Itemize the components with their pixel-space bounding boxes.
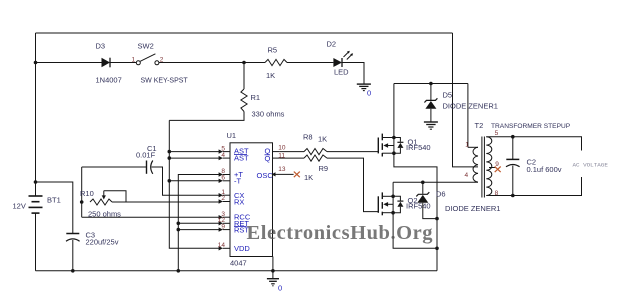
svg-text:BT1: BT1 bbox=[47, 196, 61, 205]
wire Q2 drain to transformer pin4 row bbox=[393, 182, 478, 196]
potentiometer R10 250 ohms bbox=[80, 189, 126, 219]
junction VDD rail / pin4 row bbox=[168, 156, 172, 160]
wire pin4 row bbox=[169, 157, 219, 159]
U1 left pin stubs bbox=[223, 152, 230, 249]
svg-text:U1: U1 bbox=[227, 131, 237, 140]
transistor Q2 IRF540 bbox=[378, 192, 430, 215]
svg-text:R9: R9 bbox=[319, 164, 329, 173]
IC U1 4047 body bbox=[227, 131, 273, 268]
wire secondary bottom row bbox=[486, 177, 581, 196]
svg-text:D2: D2 bbox=[327, 40, 337, 49]
svg-text:D5: D5 bbox=[443, 91, 453, 100]
svg-text:DIODE ZENER1: DIODE ZENER1 bbox=[445, 204, 500, 213]
wire transformer pin1 drop bbox=[467, 84, 469, 148]
svg-text:10: 10 bbox=[278, 144, 286, 151]
svg-text:-T: -T bbox=[234, 177, 241, 186]
U1 left pin input arrows bbox=[219, 149, 223, 250]
U1 pin 10 stub bbox=[273, 151, 280, 153]
transformer T2 secondary winding bbox=[486, 130, 499, 197]
svg-text:DIODE ZENER1: DIODE ZENER1 bbox=[443, 102, 498, 111]
wire C1 row to pin1 bbox=[82, 166, 146, 168]
wire top rail from battery+ to transformer center tap drop bbox=[36, 32, 453, 34]
U1 pin 13 OSC stub bbox=[273, 173, 294, 175]
transformer T2 primary winding bbox=[465, 141, 479, 182]
diode zener D6 bbox=[416, 182, 500, 218]
wire left rail lower (battery -) bbox=[35, 214, 37, 271]
node junction D6 tap bbox=[421, 181, 425, 185]
junction gnd rail / bottom rail bbox=[177, 269, 181, 273]
junction battery+ rail / switched row bbox=[34, 61, 38, 65]
svg-text:SW2: SW2 bbox=[138, 42, 154, 51]
diode D3 bbox=[96, 42, 122, 85]
wire Q2 source to rail bbox=[393, 213, 437, 249]
svg-text:R8: R8 bbox=[303, 133, 313, 142]
svg-text:5: 5 bbox=[495, 130, 499, 137]
switch SW2 SW KEY-SPST bbox=[132, 42, 189, 85]
svg-text:R10: R10 bbox=[80, 189, 94, 198]
svg-text:1K: 1K bbox=[304, 173, 313, 182]
svg-text:0.01F: 0.01F bbox=[136, 151, 156, 160]
svg-text:Q: Q bbox=[265, 154, 271, 163]
svg-text:IRF540: IRF540 bbox=[406, 143, 431, 152]
svg-text:0: 0 bbox=[278, 284, 282, 293]
svg-text:AC VOLTAGE: AC VOLTAGE bbox=[573, 161, 609, 168]
svg-text:220uf/25v: 220uf/25v bbox=[86, 238, 119, 247]
svg-text:4047: 4047 bbox=[230, 259, 247, 268]
wire VDD rail left of IC bbox=[169, 120, 219, 248]
wire left rail upper (battery +) bbox=[35, 33, 37, 196]
no-connect X on pin 13 bbox=[294, 172, 300, 178]
wire battery+ to D3 anode bbox=[36, 62, 102, 64]
diode zener D5 bbox=[424, 84, 498, 122]
svg-text:250 ohms: 250 ohms bbox=[88, 210, 121, 219]
junction VDD rail / pin5 row bbox=[168, 150, 172, 154]
node junction at battery+ branch bbox=[34, 180, 38, 184]
junction R1 tap on 12V row bbox=[242, 61, 246, 65]
transformer T2 core bbox=[482, 137, 485, 198]
svg-text:12V: 12V bbox=[13, 202, 26, 211]
svg-text:D6: D6 bbox=[436, 190, 446, 199]
ground for D5 bbox=[424, 122, 438, 129]
svg-text:ElectronicsHub.Org: ElectronicsHub.Org bbox=[247, 222, 434, 244]
svg-text:9: 9 bbox=[221, 223, 225, 230]
junction gnd rail / pin12 row bbox=[177, 222, 181, 226]
battery BT1 12V bbox=[13, 196, 61, 214]
U1 pin name labels bbox=[234, 146, 273, 252]
wire R5 to LED anode bbox=[287, 62, 333, 64]
wire SW2 to R5 bbox=[159, 62, 265, 64]
wire pin5 row bbox=[169, 151, 219, 153]
wire pin8 row with ground drop rail bbox=[178, 175, 219, 271]
U1 right pin numbers 10 11 13 bbox=[278, 144, 286, 173]
svg-text:LED: LED bbox=[334, 68, 349, 77]
svg-text:2: 2 bbox=[221, 195, 225, 202]
svg-text:R1: R1 bbox=[251, 93, 261, 102]
svg-text:VDD: VDD bbox=[234, 244, 250, 253]
svg-text:330 ohms: 330 ohms bbox=[252, 110, 285, 119]
svg-text:0: 0 bbox=[367, 89, 371, 98]
capacitor C1 0.01F bbox=[136, 144, 157, 174]
node junction D6 to rail bbox=[435, 217, 439, 221]
ground under IC with 0 label bbox=[267, 271, 282, 293]
LED D2 bbox=[327, 40, 354, 77]
svg-text:1K: 1K bbox=[318, 135, 327, 144]
node junction Q2 source to rail bbox=[435, 247, 439, 251]
svg-text:TRANSFORMER STEPUP: TRANSFORMER STEPUP bbox=[491, 123, 571, 130]
resistor R8 1K bbox=[280, 133, 379, 155]
svg-text:D3: D3 bbox=[96, 42, 106, 51]
wire secondary top row bbox=[486, 137, 581, 151]
wire pin3 row from R10 bottom bbox=[82, 216, 219, 218]
capacitor C3 220uf/25v bbox=[66, 231, 119, 271]
node junction C2 top bbox=[511, 135, 515, 139]
wire 12V drop to center tap bbox=[453, 33, 479, 167]
node junction D5 tap bbox=[429, 82, 433, 86]
svg-text:SW KEY-SPST: SW KEY-SPST bbox=[141, 78, 189, 85]
svg-text:14: 14 bbox=[218, 242, 226, 249]
wire pin2 row from R10 bbox=[112, 201, 219, 203]
wire Q1 source to D6 node rail bbox=[394, 153, 437, 271]
junction gnd rail / pin9 row bbox=[177, 228, 181, 232]
wire D3 cathode to SW2 bbox=[110, 62, 136, 64]
wire U1 VSS pin to bottom rail bbox=[272, 257, 274, 271]
wire pin9 row bbox=[178, 229, 219, 231]
ground for LED with 0 label bbox=[357, 84, 371, 97]
wire pin6 row bbox=[169, 180, 219, 182]
wire battery+ branch to C3 bbox=[36, 182, 73, 233]
svg-text:4: 4 bbox=[221, 152, 225, 159]
svg-text:RX: RX bbox=[234, 197, 244, 206]
resistor R9 1K bbox=[280, 155, 379, 212]
U1 pin 11 stub bbox=[273, 157, 280, 159]
transistor Q1 IRF540 bbox=[378, 134, 430, 157]
svg-text:6: 6 bbox=[221, 175, 225, 182]
svg-text:13: 13 bbox=[278, 166, 286, 173]
wire pin12 row bbox=[178, 222, 219, 224]
svg-text:OSC: OSC bbox=[257, 171, 274, 180]
svg-text:1N4007: 1N4007 bbox=[96, 76, 122, 85]
wire Q1 drain node to transformer pin1 bbox=[394, 84, 468, 138]
node junction C3 to ground rail bbox=[71, 269, 75, 273]
junction U1 VSS / bottom rail bbox=[271, 269, 275, 273]
U1 left pin numbers 5 4 8 6 1 2 3 12 9 14 bbox=[218, 145, 226, 249]
node junction C2 bottom bbox=[511, 194, 515, 198]
svg-text:R5: R5 bbox=[268, 46, 278, 55]
svg-text:T2: T2 bbox=[475, 121, 484, 130]
wire R10/C1 left rail bbox=[81, 167, 83, 217]
svg-text:4: 4 bbox=[465, 172, 469, 179]
svg-text:1K: 1K bbox=[266, 71, 275, 80]
svg-text:1: 1 bbox=[465, 141, 469, 148]
resistor R5 1K bbox=[265, 46, 287, 81]
no-connect X on secondary tap bbox=[489, 167, 496, 169]
wire bottom ground rail bbox=[36, 270, 438, 272]
wire LED cathode to ground bbox=[342, 63, 364, 85]
node junction R10 left to rail bbox=[80, 200, 84, 204]
svg-text:0.1uf 600v: 0.1uf 600v bbox=[527, 165, 562, 174]
svg-text:2: 2 bbox=[160, 57, 164, 64]
junction VDD rail / pin6 row bbox=[168, 179, 172, 183]
svg-text:1: 1 bbox=[132, 57, 136, 64]
capacitor C2 0.1uf 600v bbox=[506, 137, 562, 196]
resistor R1 330 ohms bbox=[169, 63, 284, 121]
